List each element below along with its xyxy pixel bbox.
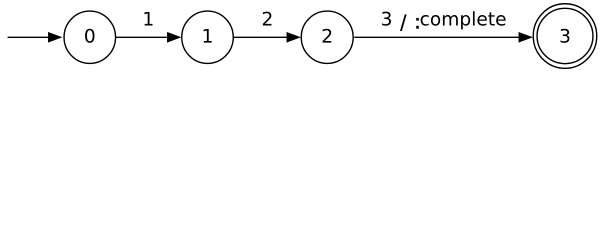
label slash (400, 14, 407, 31)
state 2 circle (301, 11, 353, 63)
state 1 label "1" (204, 29, 212, 43)
start arrow (8, 32, 62, 42)
state 1 circle (182, 11, 234, 63)
edge 2->3 (354, 32, 532, 42)
state 3 outer circle (533, 4, 597, 69)
label colon (416, 18, 419, 21)
state 0 label "0" (85, 29, 94, 43)
edge 0->1 (116, 32, 180, 42)
edge label "3 / :complete" (382, 11, 506, 29)
state 0 circle (64, 11, 116, 63)
edge label "2" (263, 12, 272, 26)
state 3 label "3" (560, 29, 569, 43)
edge 1->2 (234, 32, 300, 42)
state 2 label "2" (323, 29, 332, 43)
state 3 inner circle (accepting) (537, 8, 593, 63)
edge label "1" (144, 12, 152, 26)
